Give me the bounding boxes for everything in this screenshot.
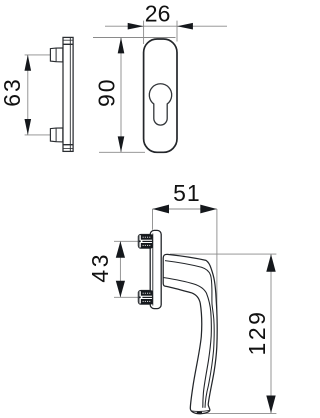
dimension 129 extension bottom [199,412,276,414]
dimension 26 line [105,25,227,27]
handle inner line B [165,261,214,408]
handle silhouette [163,254,217,413]
dimension 43 leader bottom [114,296,140,298]
dimension 26 arrow right [177,23,193,30]
dimension 129 arrow down [266,396,275,414]
dimension 90 line [120,38,122,153]
handle rosette plate [150,230,161,308]
svg-text:43: 43 [87,252,113,283]
dimension 129 arrow up [266,254,275,272]
dimension 43 leader top [114,240,140,242]
svg-text:90: 90 [94,77,120,107]
front view plate [144,39,177,152]
svg-text:63: 63 [0,77,25,107]
dimension 63 leader top [25,54,51,56]
dimension 43 arrow down [116,281,125,298]
dimension 129 line [270,254,272,413]
handle cap accent [197,412,202,414]
dimension 43 arrow up [116,241,125,257]
svg-text:129: 129 [244,310,270,356]
handle rosette inner edge [152,234,154,306]
handle cap inner line [192,409,210,412]
dimension 51 arrow left [153,205,170,214]
side view plate inner edge [69,38,71,151]
dimension 26 extension left [143,21,145,44]
dimension 90 extension top [93,37,176,39]
dimension 63 arrow down [25,119,32,135]
dimension 63 line [27,55,29,135]
dimension 90 arrow down [118,136,125,152]
svg-text:26: 26 [145,0,171,26]
side view plate top thin line [63,39,73,41]
dimension 63 arrow up [25,55,32,71]
side view screw top [50,48,62,62]
dimension 90 extension bottom [99,151,145,153]
handle screw top [138,234,152,248]
svg-text:51: 51 [173,180,201,206]
dimension 51 arrow right [200,205,217,214]
dimension 51 line [153,208,217,210]
handle screw bottom [138,290,152,304]
side view screw bottom [50,128,62,142]
side view plate bottom thick line [63,144,73,146]
dimension 129 extension top [170,253,276,255]
side view plate bar [63,37,73,151]
dimension 63 leader bottom [25,134,51,136]
side view plate top thick line [63,43,73,45]
dimension 26 arrow left [128,23,144,30]
dimension 90 arrow up [118,38,125,54]
side view plate bottom thin line [63,147,73,149]
keyhole euro profile [149,84,171,125]
dimension 43 line [119,241,121,297]
dimension 51 extension left [152,209,154,230]
handle inner line A [163,278,211,408]
dimension 51 extension right [216,209,218,316]
dimension 26 extension right [176,21,178,42]
